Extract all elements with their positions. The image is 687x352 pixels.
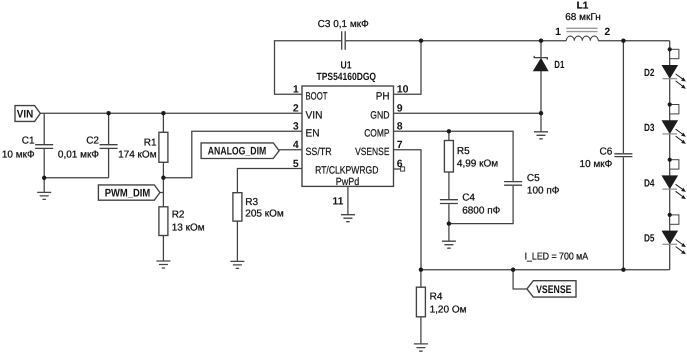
svg-text:BOOT: BOOT [306,91,328,103]
wire bottom rail [421,269,670,271]
LED D5 terminal square [670,215,679,224]
LED D4 light arrows [676,184,683,196]
svg-text:PH: PH [376,91,390,103]
ground below C1 [37,192,51,199]
LED D3 terminal square [670,105,679,114]
svg-text:5: 5 [293,158,299,170]
wire R4 top stub [420,270,422,288]
junction node bottom rail at VSENSE [511,268,515,272]
pin 6 no-connect square [401,167,405,171]
junction node top rail at PH [419,39,423,43]
wire C6 branch upper [622,41,624,153]
svg-text:13 кОм: 13 кОм [172,223,205,234]
svg-text:R1: R1 [144,137,157,148]
svg-text:TPS54160DGQ: TPS54160DGQ [317,71,377,83]
wire PWM_DIM tip stub [160,192,164,194]
svg-text:7: 7 [397,139,403,151]
wire C2 branch lower [108,149,110,178]
junction node at C1 bottom [42,176,46,180]
svg-text:VSENSE: VSENSE [355,146,389,158]
ground below C4 [442,241,456,248]
svg-text:8: 8 [397,121,403,133]
svg-text:D5: D5 [644,233,655,245]
wire top boost rail left of C3 [275,40,342,42]
svg-text:174 кОм: 174 кОм [118,149,157,160]
wire C4 bottom to ground [448,204,450,241]
svg-text:1: 1 [293,84,299,96]
wire ANALOG_DIM to SS/TR [279,149,302,151]
svg-text:RT/CLKPWRGD: RT/CLKPWRGD [315,164,379,176]
junction node LED chain D2 [668,47,672,51]
capacitor C5 plates [504,182,522,186]
svg-text:C6: C6 [600,147,613,158]
resistor R2 [159,207,168,236]
svg-text:R4: R4 [430,291,443,302]
wire D1 cathode stub [540,41,542,57]
junction node at R1 top [161,111,165,115]
wire VSENSE tag elbow [513,270,527,289]
LED D5 cathode bar [662,243,677,245]
svg-text:2: 2 [293,103,299,115]
junction node top rail at C6 [621,39,625,43]
junction node LED chain D4 [668,158,672,162]
resistor R1 [159,132,168,162]
resistor R4 [416,287,425,317]
wire R4 bottom to ground [420,317,422,344]
svg-text:R5: R5 [457,146,470,157]
wire top rail L1 to LED chain corner [598,40,669,42]
wire VSENSE pin7 down to bottom rail [394,150,422,270]
LED D2 cathode bar [662,78,677,80]
wire COMP to C5 top corner [394,131,514,181]
svg-text:C1: C1 [22,136,35,147]
svg-text:R2: R2 [172,210,185,221]
capacitor C1 plates [35,145,53,149]
svg-text:10 мкФ: 10 мкФ [580,159,613,170]
node VSENSE tag [527,281,576,297]
junction node D1 anode / GND [539,111,543,115]
junction node at R1/R2/EN [161,176,165,180]
svg-text:GND: GND [370,109,390,121]
inductor L1 core bars [566,28,597,31]
wire C2 branch upper [108,113,110,144]
wire pin5 to R3 [237,169,302,193]
svg-text:205 кОм: 205 кОм [245,209,284,220]
wire R2 bottom to ground [162,236,164,262]
diode D1 schottky cathode bar [534,56,547,60]
svg-text:4: 4 [293,139,299,151]
junction node C4/C5 bottom [447,221,451,225]
wire C5 bottom corner to C4 node [449,186,513,224]
LED D4 cathode bar [662,188,677,190]
svg-text:ANALOG_DIM: ANALOG_DIM [208,146,267,158]
wire R3 bottom to ground [236,221,238,261]
svg-text:10: 10 [397,84,409,96]
node ANALOG_DIM tag [201,143,279,159]
svg-text:4,99 кОм: 4,99 кОм [457,158,498,169]
svg-text:D4: D4 [644,177,655,189]
svg-text:C5: C5 [527,173,540,184]
wire C1 branch lower to ground [43,149,45,192]
ground below R4 [414,344,428,351]
wire R1 top stub [162,113,164,132]
LED D4 terminal square [670,160,679,169]
svg-text:0,01 мкФ: 0,01 мкФ [58,149,99,160]
ground at GND/D1 node [534,132,548,139]
diode D1 body [533,58,548,71]
ground below pin11 PwPd [341,215,355,222]
svg-text:L1: L1 [577,1,589,12]
svg-text:R3: R3 [245,197,258,208]
capacitor C4 plates [440,200,458,204]
svg-text:COMP: COMP [364,128,389,140]
svg-text:3: 3 [293,121,299,133]
junction node LED chain D3 [668,102,672,106]
wire C6 branch lower [622,157,624,269]
svg-text:D1: D1 [554,59,564,71]
svg-text:C2: C2 [86,136,99,147]
svg-text:11: 11 [332,196,343,208]
junction node bottom rail at C6 [621,268,625,272]
svg-text:VSENSE: VSENSE [536,284,571,296]
wire GND pin9 to D1 ground node [394,112,542,114]
junction node top rail at D1 [539,39,543,43]
LED D3 body [662,121,678,134]
junction node bottom rail at R4 [419,268,423,272]
junction node at C2 top [106,111,110,115]
svg-text:1,20 Ом: 1,20 Ом [430,305,467,316]
wire PH stub and vertical [394,40,422,94]
resistor R3 [233,193,242,221]
wire pin11 stub [347,186,349,214]
svg-text:68 мкГн: 68 мкГн [565,12,601,23]
node PWM_DIM tag [98,185,159,200]
svg-text:VIN: VIN [17,108,34,120]
wire top rail C3 to L1 [346,40,567,42]
op-amp U1 IC body TPS54160DGQ [302,86,394,186]
resistor R5 [444,141,453,173]
LED D2 terminal square [670,49,679,58]
LED D5 light arrows [676,240,683,252]
wire C1 branch upper [43,113,45,144]
svg-text:6: 6 [397,158,403,170]
LED D3 light arrows [676,129,683,141]
LED D4 body [662,176,678,189]
svg-text:U1: U1 [341,60,352,72]
svg-text:I_LED = 700 мА: I_LED = 700 мА [525,252,589,263]
wire pin6 no-connect stub [394,168,401,170]
junction node LED chain D5 [668,213,672,217]
wire R5 bottom to C4 [448,172,450,199]
svg-text:1: 1 [555,26,561,38]
LED D5 body [662,231,678,244]
svg-text:10 мкФ: 10 мкФ [2,149,35,160]
wire C1-C2 bottom link [44,177,108,179]
svg-text:D3: D3 [644,122,655,134]
LED D2 body [662,65,678,78]
svg-text:2: 2 [604,26,610,38]
wire BOOT vertical and stub [275,40,303,94]
svg-text:6800 пФ: 6800 пФ [462,205,500,216]
LED D3 cathode bar [662,133,677,135]
capacitor C2 plates [100,145,118,149]
svg-text:100 пФ: 100 пФ [527,185,560,196]
inductor L1 winding [566,36,598,41]
wire EN jog to R1/R2 junction [163,131,302,177]
svg-text:VIN: VIN [306,109,323,121]
svg-text:PwPd: PwPd [336,176,360,188]
LED D2 light arrows [676,74,683,86]
wire R5 top stub [448,131,450,140]
junction node COMP at R5 [447,129,451,133]
capacitor C3 plates [342,31,346,50]
wire D1 anode to ground [540,71,542,132]
wire R1 bottom to R2 top [162,162,164,207]
svg-text:9: 9 [397,103,403,115]
svg-text:C4: C4 [462,193,475,204]
ground below R3 [230,261,244,268]
ground below R2 [156,261,170,268]
svg-text:D2: D2 [644,67,655,79]
wire LED chain vertical [669,41,671,270]
svg-text:SS/TR: SS/TR [306,146,333,158]
wire VIN rail [40,112,302,114]
svg-text:C3 0,1 мкФ: C3 0,1 мкФ [318,19,369,30]
node VIN tag [15,106,40,122]
capacitor C6 plates [614,154,632,157]
svg-text:EN: EN [306,128,320,140]
svg-text:PWM_DIM: PWM_DIM [105,188,151,200]
